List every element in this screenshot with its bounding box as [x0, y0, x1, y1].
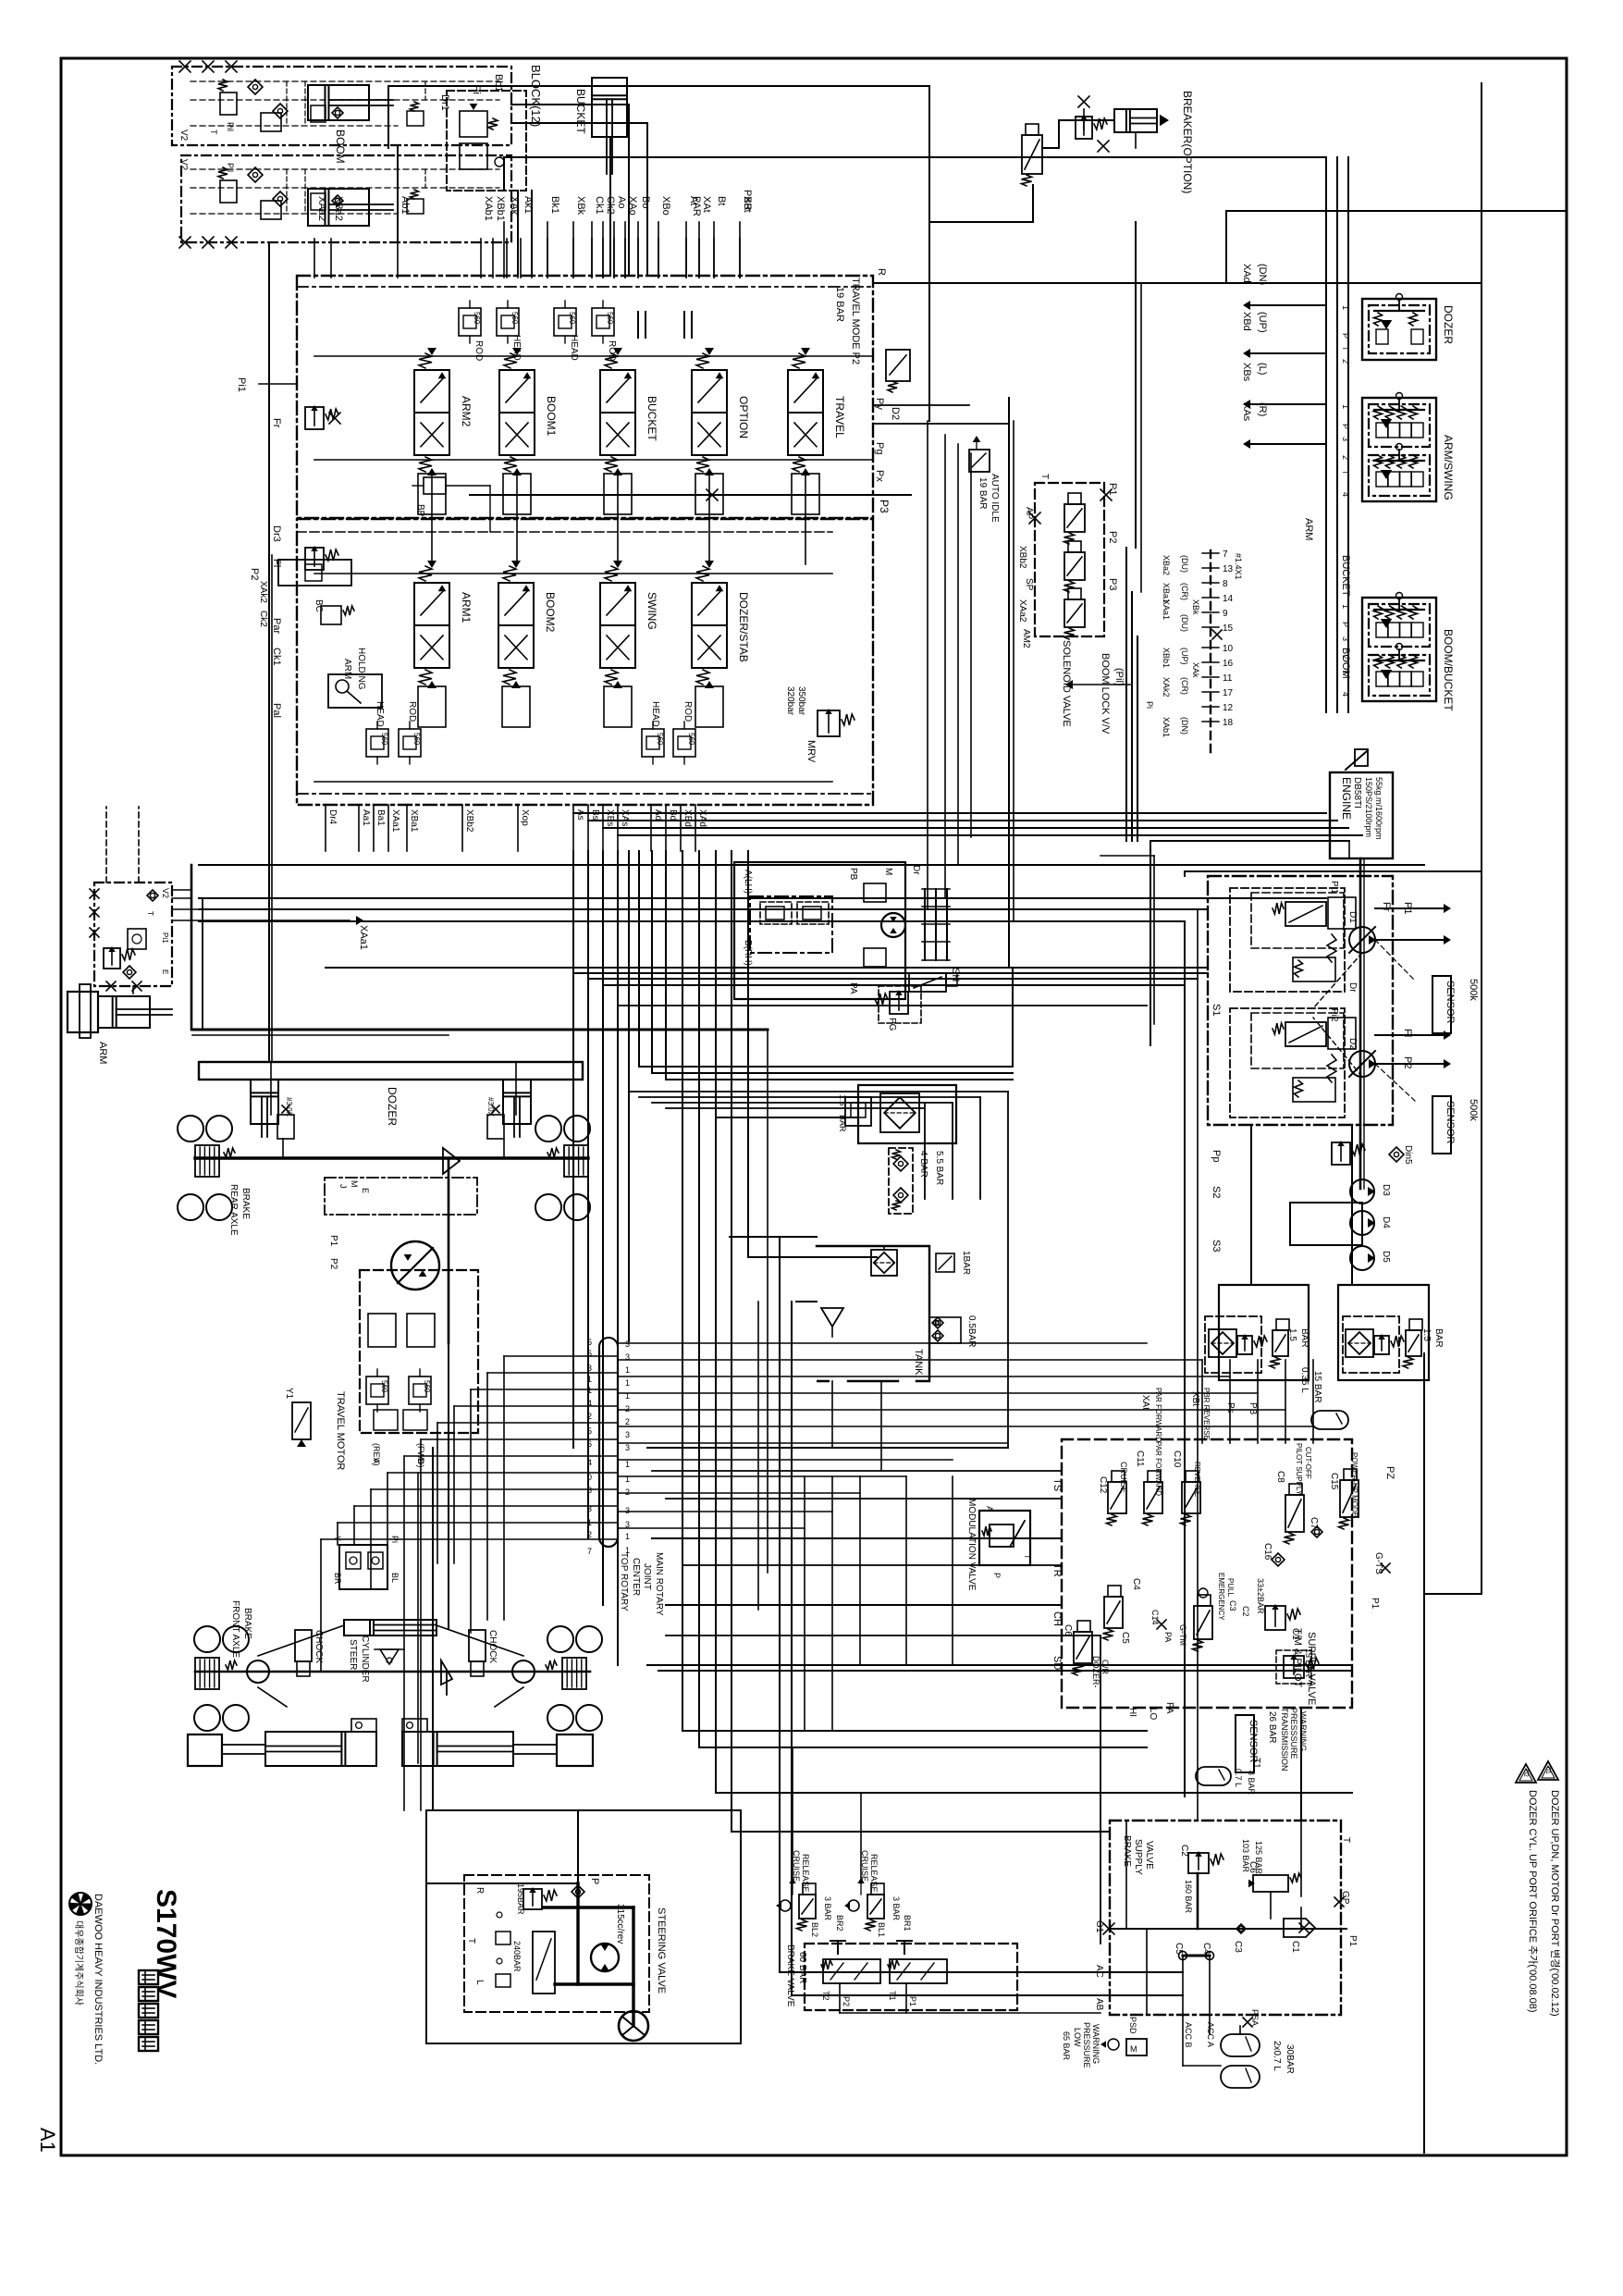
auto idle valve 19BAR [969, 450, 990, 472]
svg-text:DOZER: DOZER [386, 1087, 399, 1126]
engine shaft [1359, 858, 1362, 1189]
svg-text:1: 1 [625, 1532, 630, 1541]
svg-text:XBb2: XBb2 [464, 809, 474, 833]
svg-text:C16: C16 [1262, 1543, 1273, 1561]
svg-text:A: A [985, 1506, 994, 1512]
arm holding valve in MCV [328, 674, 382, 708]
brake supply boundary [1110, 1821, 1341, 2015]
svg-text:C5: C5 [1120, 1632, 1130, 1644]
svg-text:7: 7 [1223, 549, 1228, 560]
modulation valve [979, 1511, 1030, 1565]
oil cooler box [858, 1085, 956, 1143]
svg-text:#3.0X: #3.0X [285, 1097, 293, 1117]
svg-text:Pg: Pg [874, 442, 885, 454]
svg-text:XAd: XAd [1241, 264, 1252, 283]
svg-text:PRESSURE: PRESSURE [1082, 2022, 1091, 2068]
svg-text:SENSOR: SENSOR [1248, 1720, 1259, 1763]
svg-text:Bt: Bt [716, 196, 727, 205]
TM supply boundary [1062, 1439, 1352, 1708]
svg-text:(CR): (CR) [1180, 677, 1189, 695]
svg-text:BUCKET: BUCKET [646, 396, 658, 441]
svg-text:C4: C4 [1131, 1578, 1141, 1590]
brake supply internal wires [1197, 1873, 1199, 1929]
rear brake right [564, 1145, 588, 1177]
svg-text:Aa1: Aa1 [361, 809, 371, 826]
solenoid valve block [1035, 483, 1104, 636]
svg-text:Fr: Fr [1381, 902, 1392, 912]
svg-text:P: P [589, 1878, 600, 1884]
svg-text:1.5: 1.5 [838, 1094, 847, 1106]
MCV section SWING [600, 583, 635, 625]
outrigger anchor right [557, 1734, 593, 1766]
svg-text:P1: P1 [1370, 1598, 1380, 1610]
svg-text:(UP): (UP) [1257, 312, 1268, 333]
svg-text:BC: BC [314, 599, 324, 612]
svg-text:Ab1: Ab1 [400, 196, 411, 215]
svg-text:PG: PG [887, 1018, 897, 1031]
svg-text:1BAR: 1BAR [961, 1251, 971, 1275]
transmission sensor [1236, 1715, 1254, 1772]
svg-text:(DU): (DU) [1180, 614, 1189, 632]
svg-text:G1: G1 [1094, 1920, 1104, 1933]
svg-text:REAR AXLE: REAR AXLE [228, 1184, 239, 1236]
svg-text:Pi: Pi [1145, 701, 1154, 709]
svg-text:Pi1: Pi1 [1329, 881, 1339, 895]
svg-text:BL2: BL2 [810, 1922, 819, 1937]
svg-text:Dr: Dr [911, 865, 921, 875]
dozer cylinder right [503, 1080, 531, 1124]
svg-text:BAR: BAR [1433, 1328, 1444, 1348]
svg-text:AB: AB [1094, 1998, 1104, 2011]
svg-text:P: P [992, 1573, 1002, 1578]
front wheels right [547, 1626, 573, 1652]
svg-text:1.5: 1.5 [1287, 1328, 1297, 1341]
pump regulator 1 [1285, 902, 1326, 926]
front brake left [195, 1658, 219, 1689]
svg-text:C1: C1 [1290, 1628, 1300, 1640]
accumulator ACC B [1221, 2066, 1260, 2088]
svg-text:G-TM: G-TM [1178, 1624, 1187, 1646]
reverse solenoid C10 [1182, 1482, 1200, 1513]
svg-text:XBk: XBk [1191, 599, 1200, 615]
svg-text:CRUISE: CRUISE [1119, 1462, 1128, 1493]
svg-text:A: A [372, 1458, 381, 1463]
cruise solenoid C12 [1108, 1482, 1126, 1513]
svg-text:560: 560 [568, 312, 576, 325]
svg-text:PAR: PAR [691, 196, 702, 216]
pilot bus P3 [470, 494, 911, 496]
svg-text:SWING: SWING [646, 592, 658, 630]
svg-text:XAa1: XAa1 [390, 809, 400, 833]
gear pumps D3 D4 D5 [1350, 1179, 1374, 1204]
pilot pump line [1185, 870, 1482, 872]
svg-text:19 BAR: 19 BAR [977, 477, 988, 509]
svg-text:T: T [146, 911, 154, 916]
svg-text:ENGINE: ENGINE [1340, 777, 1353, 820]
svg-text:S1: S1 [1211, 1004, 1222, 1016]
svg-text:DOZER-: DOZER- [1091, 1656, 1100, 1688]
svg-text:BOOM1: BOOM1 [545, 396, 558, 437]
svg-text:560: 560 [687, 733, 695, 746]
svg-text:Py: Py [874, 398, 885, 410]
svg-text:XAa2: XAa2 [316, 196, 327, 221]
front brake right [562, 1658, 586, 1689]
svg-text:Dr: Dr [1347, 982, 1358, 993]
svg-text:M: M [1130, 2044, 1137, 2054]
svg-text:P1: P1 [1347, 1935, 1358, 1947]
svg-text:P2: P2 [842, 1996, 851, 2006]
warning triangle 02 [1516, 1764, 1536, 1783]
svg-text:240BAR: 240BAR [512, 1941, 522, 1972]
svg-text:Bs: Bs [590, 809, 600, 821]
svg-text:LOW: LOW [1073, 2028, 1082, 2047]
boom lock terminal strip [1210, 550, 1211, 754]
svg-text:DB58TI: DB58TI [1352, 777, 1362, 809]
svg-text:3: 3 [625, 1430, 630, 1439]
svg-text:BL1: BL1 [877, 1922, 886, 1937]
svg-text:Ck1: Ck1 [594, 196, 605, 215]
outrigger cylinder right [402, 1732, 513, 1766]
svg-text:(L): (L) [1257, 363, 1268, 375]
return filter group 2 [1338, 1285, 1429, 1380]
svg-text:Ck2: Ck2 [605, 196, 616, 215]
pump assembly boundary [1208, 876, 1393, 1125]
svg-text:R: R [876, 268, 887, 276]
MCV section BUCKET [600, 370, 635, 413]
dozer cylinder left [251, 1080, 278, 1124]
svg-text:XAa1: XAa1 [1162, 599, 1171, 620]
svg-text:As: As [575, 809, 585, 821]
svg-text:10: 10 [1223, 644, 1234, 654]
relief 33bar [1265, 1606, 1285, 1630]
svg-text:FRONT AXLE: FRONT AXLE [230, 1600, 240, 1658]
svg-text:STEER: STEER [348, 1639, 358, 1670]
svg-text:XAk2: XAk2 [258, 581, 268, 603]
svg-text:BR1: BR1 [903, 1915, 912, 1932]
Fi orifice box [278, 560, 351, 586]
svg-text:0.7 L: 0.7 L [1234, 1769, 1243, 1787]
svg-text:D3: D3 [1381, 1184, 1391, 1196]
svg-text:V2: V2 [178, 159, 189, 171]
svg-text:ACC A: ACC A [1206, 2022, 1215, 2047]
accumulator ACC A [1221, 2034, 1260, 2056]
arm cylinder [68, 992, 98, 1032]
svg-text:ARM: ARM [1303, 518, 1314, 540]
svg-text:1.5: 1.5 [1421, 1328, 1432, 1341]
rear wheels right [535, 1116, 561, 1142]
brake supply frame [817, 1810, 1064, 2043]
svg-text:16: 16 [1223, 659, 1234, 669]
steering supply line [577, 1810, 579, 1883]
svg-text:ACC B: ACC B [1184, 2022, 1193, 2048]
steering knuckle right [512, 1660, 535, 1683]
reducing 13bar [1284, 1656, 1304, 1678]
svg-text:PB: PB [1248, 1402, 1258, 1415]
svg-text:17: 17 [1223, 688, 1234, 698]
svg-text:MAIN ROTARY: MAIN ROTARY [654, 1552, 664, 1616]
svg-text:SUPPLY: SUPPLY [1133, 1839, 1143, 1875]
svg-text:150PS/2100rpm: 150PS/2100rpm [1364, 777, 1373, 837]
svg-text:SENSOR: SENSOR [1445, 1101, 1456, 1144]
svg-text:BRAKE VALVE: BRAKE VALVE [785, 1944, 795, 2007]
drawing title korean [139, 1970, 158, 1984]
breaker option circuit [1114, 109, 1157, 132]
svg-text:TANK: TANK [913, 1349, 924, 1376]
outrigger cylinder left [265, 1732, 376, 1766]
MCV section BOOM1 [499, 370, 535, 413]
svg-text:XBd: XBd [682, 809, 693, 827]
pump regulator 2 [1285, 1022, 1326, 1046]
svg-text:SENSOR: SENSOR [1445, 981, 1456, 1024]
svg-text:1: 1 [625, 1378, 630, 1388]
wires from boom cylinders to MCV [388, 85, 929, 87]
svg-text:Pi1: Pi1 [161, 932, 169, 944]
accumulator 15bar [1311, 1411, 1348, 1429]
svg-text:P3: P3 [1107, 578, 1118, 590]
svg-text:33±2BAR: 33±2BAR [1256, 1578, 1265, 1614]
svg-text:2: 2 [625, 1487, 630, 1497]
svg-text:(DN): (DN) [1180, 717, 1189, 734]
svg-text:E: E [361, 1188, 370, 1193]
svg-text:ARM2: ARM2 [460, 396, 473, 427]
pump regulator 2 box [1230, 1008, 1345, 1117]
svg-text:C4: C4 [1201, 1943, 1211, 1955]
svg-text:ROD: ROD [473, 340, 484, 361]
svg-text:30BAR: 30BAR [1285, 2044, 1295, 2074]
boom safety pilot valve [447, 91, 526, 191]
svg-text:MRV: MRV [805, 740, 817, 763]
svg-text:Px: Px [874, 470, 885, 482]
C16 check [1272, 1553, 1285, 1566]
svg-text:XBa2: XBa2 [333, 196, 344, 221]
svg-text:8: 8 [1223, 579, 1228, 589]
svg-text:ARM: ARM [342, 659, 352, 679]
svg-text:BR: BR [333, 1573, 342, 1585]
svg-text:P1: P1 [1107, 483, 1118, 495]
svg-text:MODULATION VALVE: MODULATION VALVE [966, 1499, 977, 1591]
svg-text:T: T [1023, 1554, 1032, 1560]
steer cylinder [344, 1620, 436, 1636]
svg-text:DOZER/STAB: DOZER/STAB [737, 592, 750, 662]
svg-text:(Pil): (Pil) [1113, 668, 1125, 686]
svg-text:BRAKE: BRAKE [242, 1608, 252, 1639]
svg-text:T1: T1 [1251, 1758, 1261, 1769]
svg-text:PZ: PZ [1384, 1466, 1396, 1479]
tank return funnel [821, 1308, 843, 1327]
MCV top port labels [314, 239, 315, 278]
svg-text:65 BAR: 65 BAR [1062, 2031, 1071, 2061]
RCV pilot lines left [1243, 301, 1250, 310]
svg-text:D1: D1 [1347, 911, 1358, 923]
svg-text:(UP): (UP) [1180, 648, 1189, 665]
svg-text:160 BAR: 160 BAR [1184, 1880, 1193, 1914]
svg-text:5.5 BAR: 5.5 BAR [934, 1151, 944, 1185]
brake valve 60bar [805, 1944, 1017, 2010]
svg-text:XBb1: XBb1 [495, 196, 506, 221]
svg-text:PSD: PSD [1128, 2017, 1137, 2034]
svg-text:C3: C3 [1233, 1941, 1243, 1953]
tank relief 1BAR [936, 1253, 954, 1272]
svg-text:PRESSSURE: PRESSSURE [1289, 1708, 1298, 1759]
svg-text:PSA: PSA [1250, 2009, 1260, 2026]
main control valve lower boundary [297, 519, 873, 805]
svg-text:C3: C3 [1228, 1600, 1237, 1611]
tank breather small 0.5bar [935, 1322, 937, 1324]
RCV wire bundle vertical [1325, 157, 1327, 712]
svg-text:XAk: XAk [1191, 662, 1200, 678]
svg-text:S2: S2 [1211, 1186, 1222, 1198]
svg-text:60 BAR: 60 BAR [797, 1952, 807, 1983]
travel motor assembly [325, 1178, 477, 1215]
chock cylinder left [295, 1630, 312, 1661]
svg-text:PBR: PBR [742, 190, 753, 211]
cruise release solenoid 1 [799, 1895, 816, 1919]
C5 C4 charge line [1183, 1955, 1210, 1957]
svg-text:BOOM: BOOM [1340, 648, 1351, 679]
svg-text:(R): (R) [1257, 402, 1268, 416]
sensor 2 [1432, 1096, 1451, 1154]
svg-text:C1: C1 [1290, 1941, 1300, 1953]
reducing C2 [1188, 1853, 1209, 1873]
svg-text:Pi2: Pi2 [1329, 1008, 1339, 1022]
rear wheels left [178, 1116, 203, 1142]
MCV section DOZER/STAB [692, 583, 727, 625]
svg-text:SP: SP [1024, 578, 1034, 591]
svg-text:M: M [350, 1180, 359, 1188]
svg-text:CUT-OFF: CUT-OFF [1304, 1447, 1312, 1479]
svg-text:TRAVEL MOTOR: TRAVEL MOTOR [335, 1391, 346, 1470]
svg-text:Xop: Xop [520, 809, 530, 826]
svg-text:AM2: AM2 [1021, 629, 1031, 648]
chock cylinder right [469, 1630, 486, 1661]
svg-text:BRAKE: BRAKE [240, 1188, 251, 1219]
MCV section OPTION [692, 370, 727, 413]
hydraulic tank [817, 1246, 929, 1381]
svg-text:Y1: Y1 [284, 1388, 294, 1400]
main pump P1 [1349, 927, 1375, 953]
MCV section BOOM2 [498, 583, 534, 625]
svg-text:AUTO IDLE: AUTO IDLE [990, 474, 1000, 523]
svg-text:SH: SH [950, 968, 961, 981]
rear brake left [195, 1145, 219, 1177]
svg-text:BL: BL [390, 1573, 400, 1583]
BC pilot valve [321, 606, 341, 624]
svg-text:PULL: PULL [1226, 1578, 1235, 1598]
svg-text:BREAKER(OPTION): BREAKER(OPTION) [1181, 91, 1194, 193]
svg-text:C8: C8 [1275, 1471, 1285, 1483]
svg-text:XAt: XAt [1140, 1395, 1150, 1410]
RCV wire bundle top [504, 156, 1326, 158]
steering linkage [258, 1625, 344, 1656]
main rotary joint [599, 1338, 618, 1352]
svg-text:XAa1: XAa1 [358, 925, 369, 950]
svg-text:CYLINDER: CYLINDER [360, 1636, 370, 1683]
svg-text:EMERGENCY: EMERGENCY [1217, 1573, 1225, 1621]
svg-text:XBd: XBd [1241, 312, 1252, 331]
engine box [1330, 772, 1393, 858]
steering knuckle left [247, 1660, 269, 1683]
C5 valve [1104, 1597, 1123, 1628]
svg-text:D2: D2 [890, 407, 901, 420]
svg-text:560: 560 [380, 733, 388, 746]
emergency pull valve [1194, 1606, 1212, 1639]
svg-text:WARNING: WARNING [1091, 2024, 1100, 2064]
swing reduction gear [924, 889, 926, 960]
svg-text:ARM1: ARM1 [460, 592, 473, 623]
svg-text:T: T [1039, 474, 1050, 479]
svg-text:560: 560 [423, 1380, 431, 1393]
svg-text:Dr3: Dr3 [271, 525, 282, 542]
main pump P2 [1349, 1051, 1375, 1077]
svg-text:3: 3 [625, 1506, 630, 1515]
svg-text:HEAD: HEAD [375, 701, 385, 727]
svg-text:C2: C2 [1179, 1845, 1189, 1857]
svg-text:350bar: 350bar [796, 686, 806, 716]
svg-text:HOLDING: HOLDING [356, 648, 366, 690]
svg-text:POWER-UP MODE: POWER-UP MODE [1350, 1452, 1359, 1517]
svg-text:LO: LO [1148, 1708, 1158, 1721]
svg-text:PA: PA [1164, 1702, 1174, 1714]
cooler bypass relief 1.5BAR [845, 1097, 871, 1126]
svg-text:O/R: O/R [1100, 1660, 1110, 1675]
svg-text:V2: V2 [178, 130, 189, 142]
svg-text:XAd: XAd [697, 809, 707, 827]
RCV arm/swing [1362, 398, 1436, 501]
svg-text:STEERING VALVE: STEERING VALVE [656, 1907, 667, 1994]
svg-text:3: 3 [625, 1443, 630, 1452]
svg-text:XBk: XBk [575, 196, 586, 216]
svg-text:C2: C2 [1241, 1606, 1250, 1617]
lower right big box [566, 1024, 1437, 1292]
swing motor with brake valves [734, 862, 905, 999]
svg-text:(DU): (DU) [1180, 555, 1189, 573]
tank breather 0.5BAR [932, 1317, 943, 1328]
SH shuttle valve [909, 973, 946, 992]
MCV anti-drift capacitors [637, 312, 639, 338]
main relief valve MRV [818, 710, 840, 736]
svg-text:DAEWOO HEAVY INDUSTRIES LTD.: DAEWOO HEAVY INDUSTRIES LTD. [92, 1894, 104, 2065]
svg-text:2: 2 [625, 1404, 630, 1413]
accumulator 8bar [1196, 1767, 1231, 1785]
svg-text:P2: P2 [1402, 1056, 1413, 1068]
svg-text:#1.4X1: #1.4X1 [1234, 553, 1243, 580]
svg-text:XAs: XAs [620, 809, 630, 826]
svg-text:PA: PA [1163, 1632, 1173, 1642]
svg-text:P3: P3 [878, 500, 891, 513]
svg-text:Ak1: Ak1 [523, 196, 534, 214]
svg-text:Fr: Fr [271, 418, 282, 428]
svg-text:T: T [1341, 1837, 1351, 1843]
svg-text:BUCKET: BUCKET [1340, 555, 1351, 597]
svg-text:BAR: BAR [1299, 1328, 1309, 1348]
MCV lower pilot stages [418, 686, 446, 727]
svg-text:HEAD: HEAD [650, 701, 660, 727]
svg-text:C11: C11 [1135, 1450, 1145, 1467]
pump regulator 1 box [1230, 888, 1345, 992]
svg-text:1: 1 [625, 1365, 630, 1375]
front axle [195, 1671, 590, 1673]
svg-text:Pi1: Pi1 [236, 377, 247, 392]
svg-text:Pil: Pil [226, 122, 235, 131]
svg-text:RELEASE: RELEASE [869, 1854, 879, 1893]
svg-text:Ao: Ao [616, 196, 627, 208]
travel mode select valve 19BAR [886, 350, 910, 381]
RCV boom/bucket [1362, 598, 1436, 701]
svg-text:DOZER CYL. UP PORT ORIFICE 추가(: DOZER CYL. UP PORT ORIFICE 추가('00.08.08) [1527, 1790, 1539, 2013]
svg-text:RELEASE: RELEASE [801, 1854, 810, 1893]
svg-text:S3: S3 [1211, 1240, 1222, 1252]
svg-text:ARM: ARM [97, 1042, 108, 1064]
